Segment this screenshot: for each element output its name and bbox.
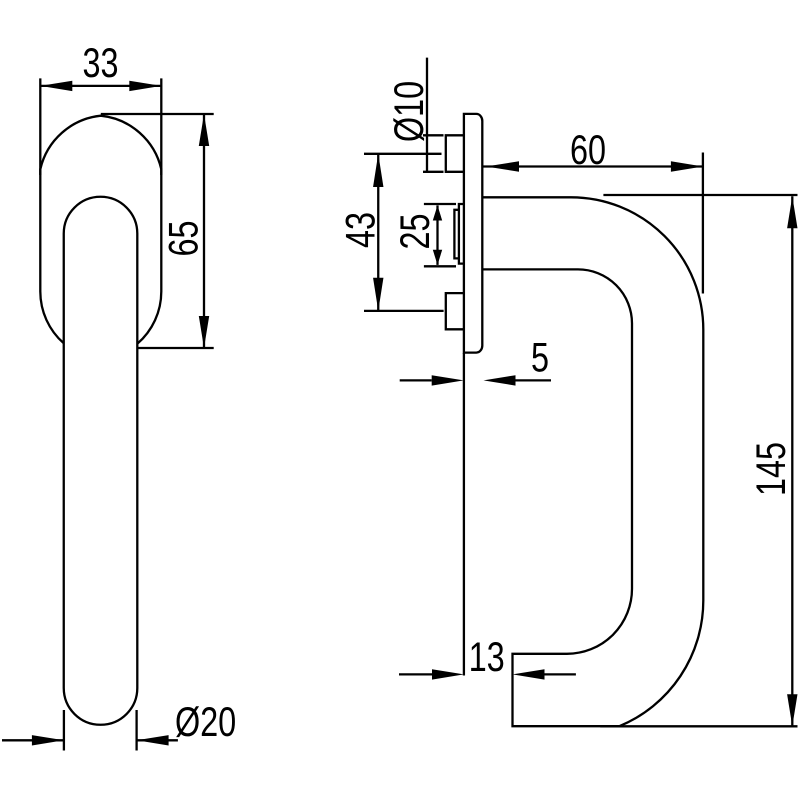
grip (front view): [64, 197, 138, 725]
dim 65 arrow bottom: [199, 316, 209, 348]
dim Ø20 arrow left: [32, 735, 64, 745]
dim 43 line: [377, 154, 379, 311]
dim 33 text: [84, 48, 117, 77]
dim 60 ext line right: [702, 153, 704, 294]
dim 25 ext line top: [424, 203, 456, 205]
dim 33 line: [40, 85, 161, 87]
spindle step outer: [459, 204, 464, 264]
dim 65 text: [169, 222, 198, 255]
dim Ø20 text: [176, 706, 235, 737]
screw boss bottom: [446, 293, 464, 329]
dim 145 arrow top: [787, 196, 797, 228]
dim Ø20 arrow right: [137, 735, 169, 745]
dim Ø10 line: [426, 58, 428, 172]
dim 13 text: [471, 642, 503, 671]
dim 43 arrow top: [373, 154, 383, 187]
dim 145 ext line bottom: [600, 725, 797, 727]
dim 43 text: [346, 213, 375, 247]
rosette oval (front view): [40, 116, 161, 344]
dim 60 text: [572, 135, 605, 164]
dim 25 line: [436, 205, 438, 265]
dim Ø20 ext line left: [63, 710, 65, 751]
dim 5 text: [532, 343, 547, 372]
dim Ø10 text: [393, 82, 424, 141]
dim Ø20 leader right: [137, 739, 178, 741]
dim 65 ext line bottom: [138, 347, 214, 349]
dim 65 line: [203, 114, 205, 348]
dim 5 arrow left: [432, 375, 464, 385]
dim 43 ext line bottom: [364, 310, 444, 312]
dim 33 arrow right: [129, 81, 161, 91]
dim 5 arrow right: [484, 375, 516, 385]
dim 65 ext line top: [101, 113, 214, 115]
dim 65 arrow top: [199, 114, 209, 146]
screw boss top: [446, 135, 464, 172]
dim 5 leader right: [516, 379, 552, 381]
dim 13 leader right: [545, 673, 576, 675]
dim 5 leader left: [400, 379, 432, 381]
dim 145 arrow bottom: [787, 694, 797, 726]
dim 60 line: [482, 165, 703, 167]
dim 13 leader left: [399, 673, 432, 675]
dim 25 text: [400, 215, 429, 248]
dim 145 ext line top: [603, 194, 797, 196]
handle profile (side view): [482, 197, 703, 726]
dim 43 arrow bottom: [373, 278, 383, 311]
dim 60 arrow left: [486, 161, 519, 171]
dim 13 arrow right: [513, 669, 545, 679]
dim 145 line: [791, 196, 793, 726]
dim Ø10 tick top: [423, 134, 444, 136]
dim 25 arrow bottom: [433, 250, 442, 265]
dim 145 text: [756, 443, 785, 493]
dim 13 arrow left: [432, 669, 464, 679]
dim 25 ext line bottom: [424, 265, 456, 267]
dim 60 arrow right: [671, 161, 703, 171]
dim 33 ext line left: [39, 78, 41, 175]
dim 33 arrow left: [40, 81, 72, 91]
dim Ø20 ext line right: [135, 710, 137, 751]
spindle step inner: [454, 210, 459, 259]
plate (side view): [464, 114, 482, 353]
dim Ø20 leader left: [2, 739, 64, 741]
dim 33 ext line right: [160, 78, 162, 175]
dim 25 arrow top: [433, 205, 442, 220]
dim Ø10 tick bottom: [423, 171, 444, 173]
dim 43 ext line top: [364, 153, 442, 155]
dim 13 ext line left: [463, 353, 465, 676]
